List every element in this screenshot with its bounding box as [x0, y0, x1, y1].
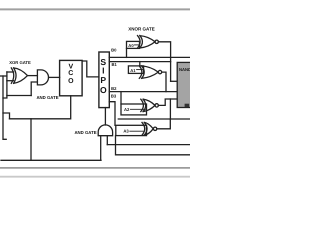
NAND output stub	[185, 104, 190, 108]
svg-text:B1: B1	[112, 62, 118, 67]
svg-text:P: P	[100, 75, 106, 85]
svg-text:B2: B2	[111, 86, 117, 91]
wire y154.6 long	[116, 136, 191, 155]
wire AND3 input left	[100, 136, 102, 161]
wire AND output to VCO	[49, 76, 60, 78]
svg-text:A0: A0	[128, 43, 134, 48]
wire VCO output jog to SIPO	[82, 61, 99, 77]
wire B2 long to NAND	[109, 91, 177, 93]
wire bottom long	[1, 159, 101, 161]
wire B1 long	[109, 61, 170, 63]
AND gate U2	[37, 70, 48, 85]
wire AND3 output up to SIPO	[104, 108, 106, 125]
svg-text:B3: B3	[111, 94, 117, 99]
svg-text:XNOR GATE: XNOR GATE	[128, 27, 154, 32]
wire B0 long	[109, 56, 190, 58]
wire B3	[109, 102, 115, 126]
svg-text:XOR GATE: XOR GATE	[9, 60, 31, 65]
wire B0 riser to A0	[126, 48, 128, 57]
svg-text:O: O	[68, 78, 74, 85]
wire horizontal y95	[7, 95, 31, 97]
lower light rule	[0, 176, 190, 178]
wire riser x8.8	[3, 113, 10, 119]
wire far-left vertical	[3, 76, 6, 139]
wire vertical x31 lower	[30, 119, 32, 161]
NAND block	[177, 62, 191, 107]
input box A2	[121, 104, 147, 115]
VCO block	[60, 60, 83, 95]
wire XOR input 1	[7, 71, 14, 73]
input box A1	[128, 66, 143, 74]
svg-text:A2: A2	[124, 107, 130, 112]
wire long y119	[118, 118, 190, 120]
XNOR gate G3	[141, 99, 155, 111]
wire B1 drop to G2	[139, 62, 141, 67]
svg-text:A3: A3	[123, 129, 129, 134]
wire riser x170 between nets	[169, 99, 171, 119]
input box A0	[127, 41, 140, 48]
XNOR gate G1	[138, 36, 156, 48]
wire left edge input	[0, 75, 7, 77]
wire AND3 input right	[106, 136, 108, 145]
wire XOR input 2	[7, 80, 14, 82]
wire G4 output to NAND bottom	[157, 119, 171, 129]
bottom border rule	[0, 167, 190, 169]
svg-text:C: C	[68, 70, 73, 77]
svg-text:AND GATE: AND GATE	[74, 130, 96, 135]
svg-text:AND GATE: AND GATE	[36, 95, 58, 100]
XNOR gate G2	[139, 66, 158, 78]
wire G3 output	[158, 99, 177, 105]
wire G2 output	[162, 72, 166, 92]
wire VCO bottom feedback	[10, 96, 71, 119]
wire XOR output to AND	[28, 75, 38, 77]
wire y144.6 long	[107, 144, 190, 146]
XOR gate U1	[11, 68, 27, 83]
top border rule	[0, 8, 190, 10]
XNOR gate G4	[142, 122, 153, 135]
svg-text:B0: B0	[111, 48, 117, 53]
wire G1 output	[158, 42, 170, 82]
wire riser to AND input	[31, 82, 37, 96]
svg-text:O: O	[100, 85, 107, 95]
wire B1 to NAND in2	[171, 80, 178, 82]
svg-text:NAND: NAND	[179, 67, 190, 72]
SIPO block	[99, 52, 109, 108]
AND gate U3 (bottom)	[98, 125, 112, 136]
input box A3	[116, 125, 147, 135]
wire vertical riser x6.3	[3, 72, 7, 98]
svg-text:A1: A1	[130, 68, 136, 73]
wire B2 drop to A2	[120, 92, 122, 104]
